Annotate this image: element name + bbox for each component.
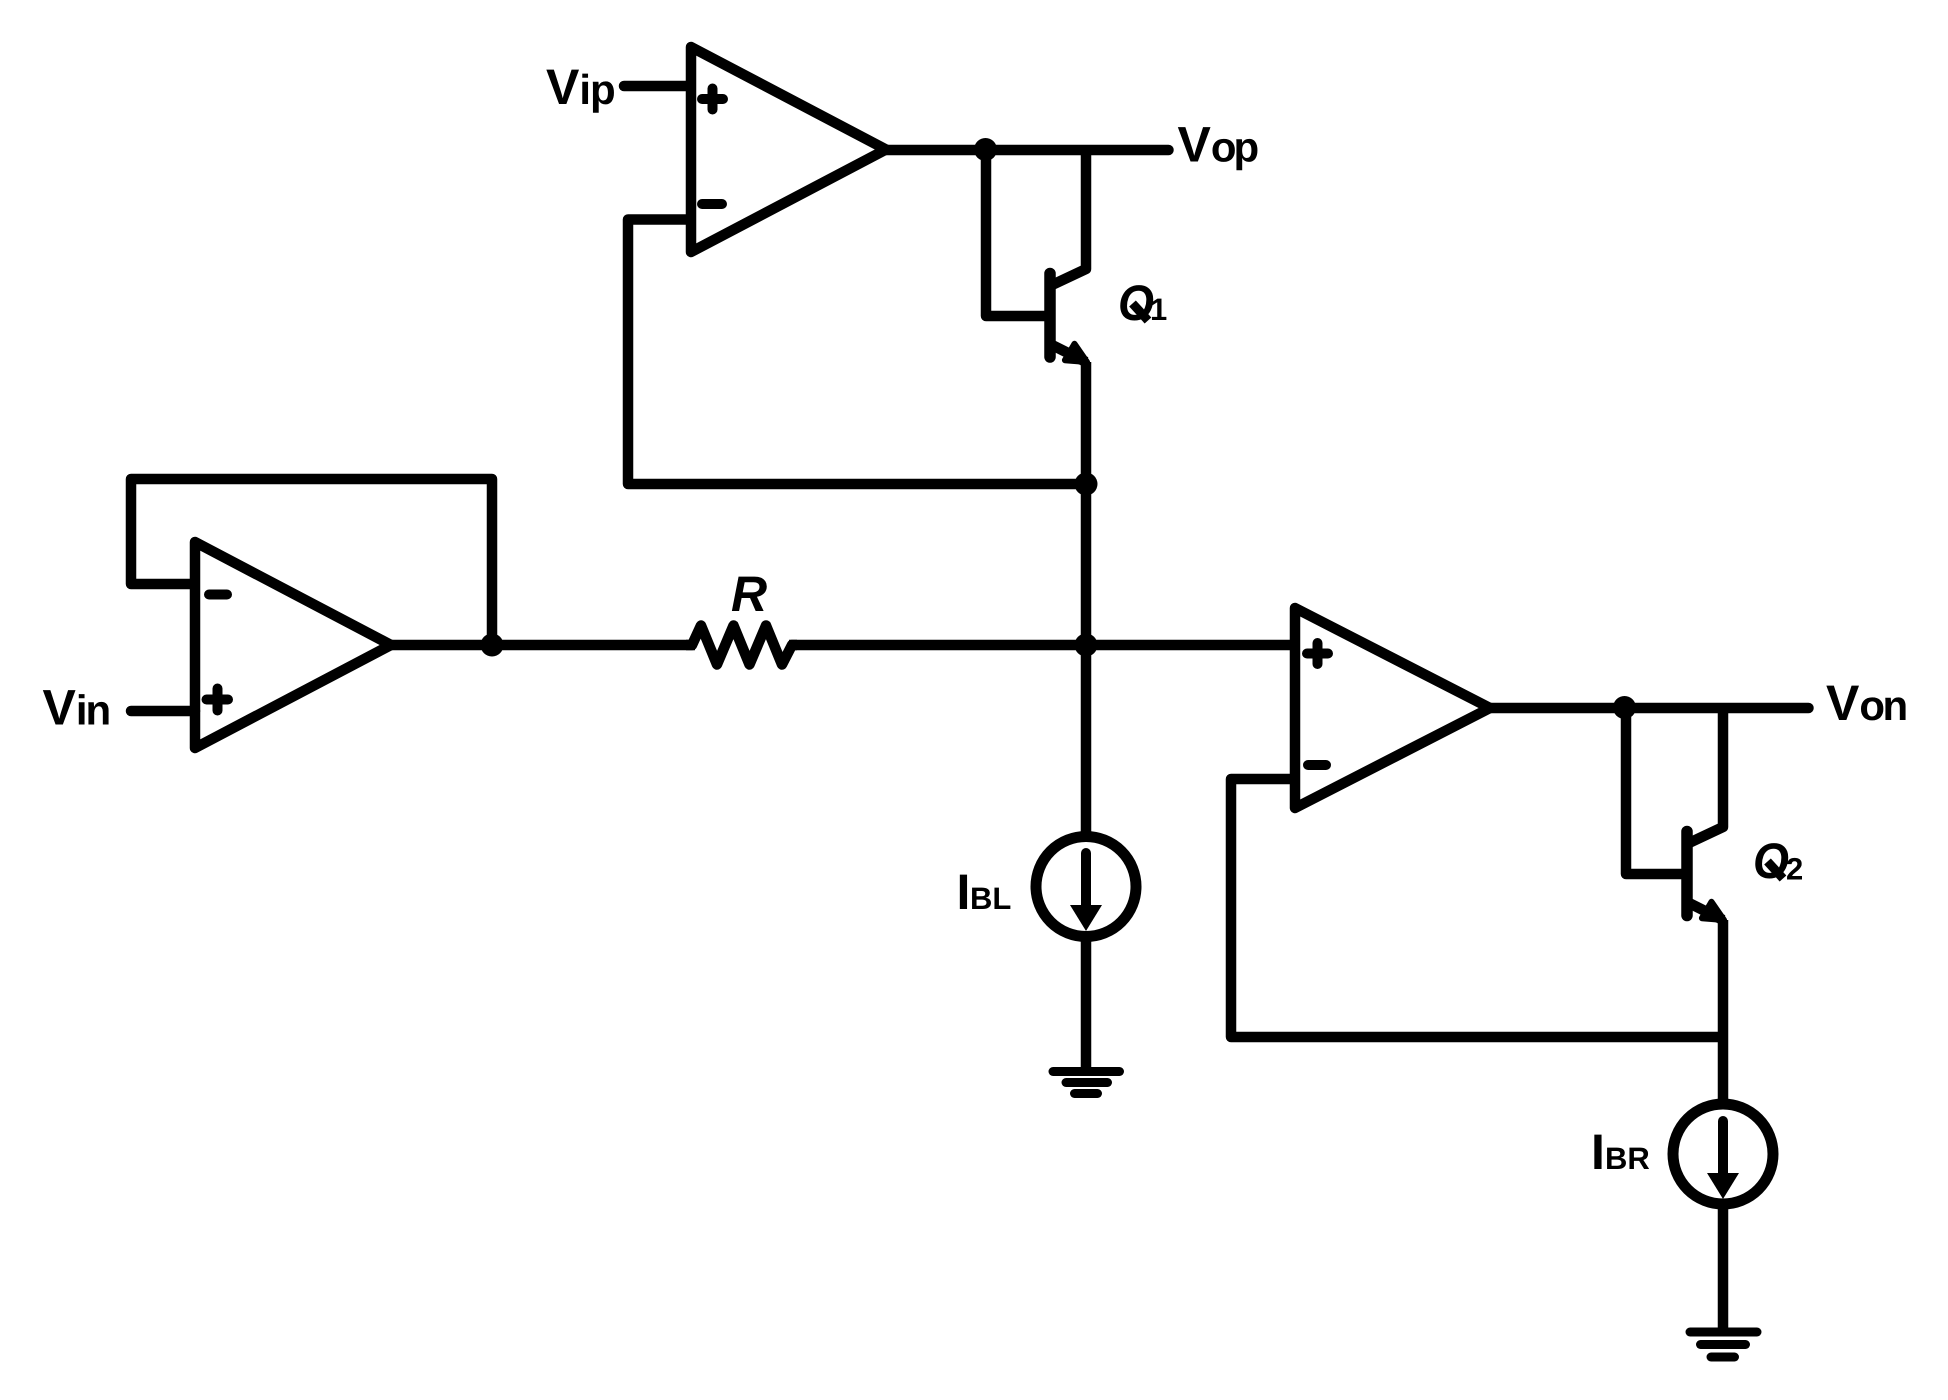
current source IBR bbox=[1673, 1104, 1773, 1204]
wire IBR to ground bbox=[1718, 1204, 1729, 1332]
U1 plus symbol bbox=[702, 89, 723, 110]
wire IBL to ground bbox=[1081, 936, 1092, 1071]
resistor R bbox=[686, 626, 797, 665]
main wire: resistor to U3 + input bbox=[789, 640, 1295, 651]
label IBR bbox=[1594, 1135, 1649, 1169]
U2 plus symbol bbox=[207, 689, 229, 711]
wire node to IBL bbox=[1081, 645, 1092, 837]
ground (IBR) bbox=[1690, 1332, 1757, 1357]
label Vop bbox=[1178, 127, 1258, 170]
node dot U1 output bbox=[974, 138, 997, 161]
label Vip bbox=[546, 70, 614, 113]
U1 minus symbol bbox=[702, 199, 722, 209]
label R bbox=[732, 577, 767, 611]
wire U1 feedback (minus input to emitter node) bbox=[628, 220, 1086, 485]
label IBL bbox=[960, 875, 1011, 909]
wire U2 feedback bbox=[131, 479, 492, 645]
wire Q2 base bbox=[1626, 708, 1687, 874]
label Von bbox=[1826, 686, 1905, 721]
wire Q2 emitter down to IBR bbox=[1718, 920, 1729, 1105]
wire Q1 emitter down to main node bbox=[1081, 362, 1092, 645]
U3 plus symbol bbox=[1307, 643, 1328, 664]
wire Vip to U1 + input bbox=[624, 81, 691, 92]
wire U1 output to Vop bbox=[886, 145, 1169, 156]
junction dot U2 output bbox=[481, 634, 504, 657]
label Vin bbox=[43, 690, 109, 724]
wire Q1 base bbox=[986, 150, 1050, 316]
node dot center bbox=[1075, 634, 1098, 657]
wire U3 feedback bbox=[1231, 779, 1722, 1037]
label Q2 bbox=[1755, 843, 1802, 879]
ground (IBL) bbox=[1053, 1072, 1120, 1094]
op-amp U1 (top) bbox=[691, 47, 886, 252]
U2 minus symbol bbox=[209, 590, 227, 600]
junction dot feedback/emitter bbox=[1075, 473, 1098, 496]
wire Vin bbox=[131, 706, 195, 717]
U3 minus symbol bbox=[1308, 760, 1326, 770]
wire U2 output to resistor bbox=[391, 640, 695, 651]
junction dot U3 output bbox=[1613, 696, 1636, 719]
transistor Q1 bbox=[1050, 150, 1087, 362]
wire U3 output to Von bbox=[1490, 703, 1809, 714]
label Q1 bbox=[1120, 285, 1166, 320]
current source IBL bbox=[1036, 837, 1136, 937]
transistor Q2 bbox=[1687, 708, 1724, 920]
